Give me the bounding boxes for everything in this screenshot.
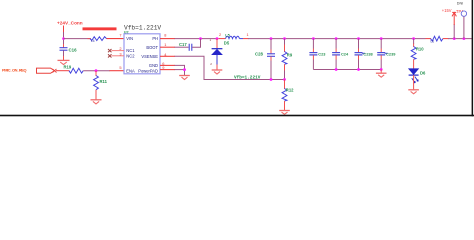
wire bus to ground bbox=[380, 70, 382, 74]
LED D6 bbox=[409, 69, 426, 83]
svg-text:1: 1 bbox=[247, 32, 249, 37]
node PH/BOOT bbox=[199, 37, 202, 40]
node GND junction bbox=[183, 68, 186, 71]
pin 1 BOOT stub bbox=[160, 46, 175, 48]
wire R9 column bbox=[284, 39, 286, 45]
svg-text:2: 2 bbox=[219, 32, 221, 37]
ground (R11) bbox=[91, 100, 102, 104]
pin 2 NC1 stub bbox=[112, 50, 125, 52]
sheet background bbox=[0, 0, 474, 121]
capacitor C238 bbox=[355, 51, 374, 56]
svg-text:C238: C238 bbox=[363, 51, 373, 56]
power net label +24V_Conn bbox=[57, 20, 83, 32]
capacitor C17 bbox=[179, 42, 192, 51]
pin 9 PowerPAD stub bbox=[160, 69, 175, 71]
resistor R9 bbox=[282, 52, 293, 65]
svg-text:+24V_Conn: +24V_Conn bbox=[57, 20, 83, 25]
wire R9 to feedback bbox=[284, 64, 286, 71]
wire +24V to bead bbox=[64, 38, 91, 40]
wire PH to node bbox=[175, 38, 219, 40]
wire C24 column bbox=[335, 39, 337, 49]
wire R10 column bbox=[413, 39, 415, 44]
ground (capacitor bus) bbox=[376, 73, 387, 77]
node feedback R9 bbox=[283, 78, 286, 81]
resistor R12 bbox=[282, 88, 294, 102]
svg-text:L5: L5 bbox=[225, 33, 229, 37]
wire feedback down to R12 bbox=[284, 80, 286, 90]
wire GND/PowerPAD to ground bbox=[175, 65, 185, 75]
test point TP4 bbox=[456, 2, 467, 39]
sheet border bottom bbox=[0, 115, 474, 117]
svg-text:VIN: VIN bbox=[126, 36, 133, 41]
ferrite bead L6 bbox=[426, 36, 449, 43]
ferrite bead L4 bbox=[88, 37, 107, 43]
svg-text:D5: D5 bbox=[224, 40, 230, 45]
svg-text:R12: R12 bbox=[286, 88, 294, 93]
svg-text:Vfb=1.221V: Vfb=1.221V bbox=[124, 24, 161, 31]
node diode junction bbox=[216, 37, 219, 40]
ground (D6) bbox=[408, 90, 419, 94]
svg-text:R10: R10 bbox=[416, 47, 424, 52]
wire R11 to ground bbox=[95, 90, 97, 100]
capacitor C23 bbox=[309, 51, 326, 56]
svg-text:8: 8 bbox=[164, 33, 166, 38]
wire R12 to ground bbox=[284, 101, 286, 110]
wire junction down to R11 bbox=[95, 71, 97, 76]
node +15V junction bbox=[453, 37, 456, 40]
wire R10 to D6 bbox=[413, 59, 415, 68]
node feedback C28 bbox=[270, 78, 273, 81]
svg-text:C28: C28 bbox=[255, 51, 263, 56]
no-connect X on NC1 bbox=[108, 49, 112, 52]
pin 3 NC2 stub bbox=[112, 55, 125, 57]
wire C28 column bbox=[270, 39, 272, 50]
svg-text:7: 7 bbox=[119, 33, 121, 38]
ground (C16) bbox=[58, 60, 70, 64]
pin 6 GND stub bbox=[160, 64, 175, 66]
pin 5 stub wire bbox=[110, 70, 125, 72]
svg-text:C239: C239 bbox=[386, 51, 396, 56]
svg-text:R9: R9 bbox=[287, 52, 293, 57]
svg-text:C16: C16 bbox=[69, 47, 78, 52]
node TP4 junction bbox=[463, 37, 466, 40]
highlighted wire segment (thick red bar) bbox=[83, 27, 117, 30]
svg-text:BOOT: BOOT bbox=[146, 45, 158, 50]
wire D6 to ground bbox=[413, 75, 415, 89]
wire C17 up to PH node bbox=[192, 39, 200, 48]
resistor R11 bbox=[94, 76, 108, 90]
svg-text:C24: C24 bbox=[341, 51, 349, 56]
resistor R10 bbox=[411, 47, 424, 60]
ground (R12) bbox=[279, 111, 290, 115]
pin 7 stub wire bbox=[107, 38, 125, 40]
wire +24V vertical bbox=[63, 32, 65, 44]
svg-text:VSENSE: VSENSE bbox=[141, 54, 158, 59]
node +24V junction bbox=[62, 37, 65, 40]
node rail junctions bbox=[270, 37, 415, 40]
svg-text:C23: C23 bbox=[318, 51, 326, 56]
svg-text:PMIC_ON_REQ: PMIC_ON_REQ bbox=[2, 67, 26, 72]
capacitor C24 bbox=[332, 51, 349, 56]
node ENA junction bbox=[95, 69, 98, 72]
wire R19 to ENA bbox=[83, 70, 110, 72]
wire rail to border bbox=[448, 38, 472, 40]
wire C239 column bbox=[380, 39, 382, 49]
wire flag to R19 bbox=[56, 70, 70, 72]
svg-text:D6: D6 bbox=[420, 70, 426, 75]
wire C28 to feedback bbox=[270, 56, 272, 60]
wire C16 to ground bbox=[63, 51, 65, 58]
power symbol +15V bbox=[442, 8, 457, 39]
svg-text:NC2: NC2 bbox=[126, 53, 135, 58]
svg-text:1: 1 bbox=[164, 42, 166, 47]
wire BOOT to C17 bbox=[175, 46, 189, 48]
svg-text:R19: R19 bbox=[64, 65, 72, 70]
svg-text:C17: C17 bbox=[179, 42, 187, 47]
svg-text:5: 5 bbox=[119, 65, 121, 70]
svg-text:R11: R11 bbox=[100, 79, 108, 84]
no-connect X on NC2 bbox=[108, 54, 112, 57]
diode D5 bbox=[212, 40, 230, 54]
capacitor C16 bbox=[60, 47, 78, 52]
wire output rail bbox=[248, 38, 426, 40]
wire C23 column bbox=[312, 39, 314, 49]
capacitor C239 bbox=[377, 51, 396, 56]
pin 8 PH stub bbox=[160, 38, 175, 40]
svg-text:L6: L6 bbox=[431, 39, 435, 43]
ground (IC) bbox=[179, 76, 190, 80]
svg-text:PH: PH bbox=[152, 36, 158, 41]
net flag PMIC_ON_REQ bbox=[2, 67, 57, 73]
wire D5 to ground bbox=[216, 55, 218, 65]
svg-text:PowerPAD: PowerPAD bbox=[138, 68, 158, 73]
sheet border right bbox=[472, 0, 474, 116]
wire node to D5 bbox=[216, 39, 218, 49]
wire C238 column bbox=[358, 39, 360, 49]
svg-text:DNI: DNI bbox=[457, 2, 463, 6]
ground (D5) bbox=[212, 70, 223, 74]
pin 4 VSENSE stub bbox=[160, 55, 175, 57]
wire capacitor bottom bus bbox=[313, 69, 381, 71]
IC U2 body bbox=[124, 34, 160, 74]
resistor R19 bbox=[64, 65, 84, 74]
svg-text:L4: L4 bbox=[91, 39, 95, 43]
wire VSENSE feedback bbox=[175, 56, 285, 79]
svg-text:ENA: ENA bbox=[126, 68, 135, 73]
svg-text:Vfb=1.221V: Vfb=1.221V bbox=[234, 75, 261, 80]
capacitor C28 bbox=[255, 51, 275, 56]
node bottom bus junctions bbox=[335, 68, 383, 71]
svg-text:+15V: +15V bbox=[442, 8, 452, 13]
inductor L5 bbox=[219, 32, 249, 38]
